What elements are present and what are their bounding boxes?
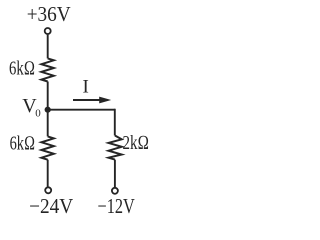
svg-text:−24V: −24V (29, 194, 73, 218)
svg-text:−12V: −12V (98, 194, 135, 218)
wire R2 to terminal (47, 160, 49, 187)
wire right branch top (114, 109, 116, 136)
svg-text:0: 0 (35, 107, 41, 119)
current arrow I (73, 99, 100, 101)
svg-text:6kΩ: 6kΩ (9, 58, 35, 80)
wire node Vo to R2 (47, 110, 49, 137)
wire node Vo to right branch (48, 109, 115, 111)
resistor R3 2k ohm (109, 136, 122, 160)
svg-text:2kΩ: 2kΩ (123, 132, 150, 154)
node Vo junction dot (45, 107, 51, 113)
wire terminal to R1 (47, 35, 49, 59)
resistor R2 6k ohm lower left (41, 136, 53, 159)
svg-text:6kΩ: 6kΩ (10, 133, 35, 155)
terminal -12V (112, 188, 118, 194)
terminal -24V (45, 187, 51, 193)
terminal +36V (45, 28, 51, 34)
wire R3 to terminal (114, 160, 116, 188)
svg-text:+36V: +36V (27, 2, 71, 26)
svg-text:I: I (83, 77, 89, 98)
wire R1 to node Vo (47, 82, 49, 110)
resistor R1 6k ohm upper left (41, 58, 53, 81)
